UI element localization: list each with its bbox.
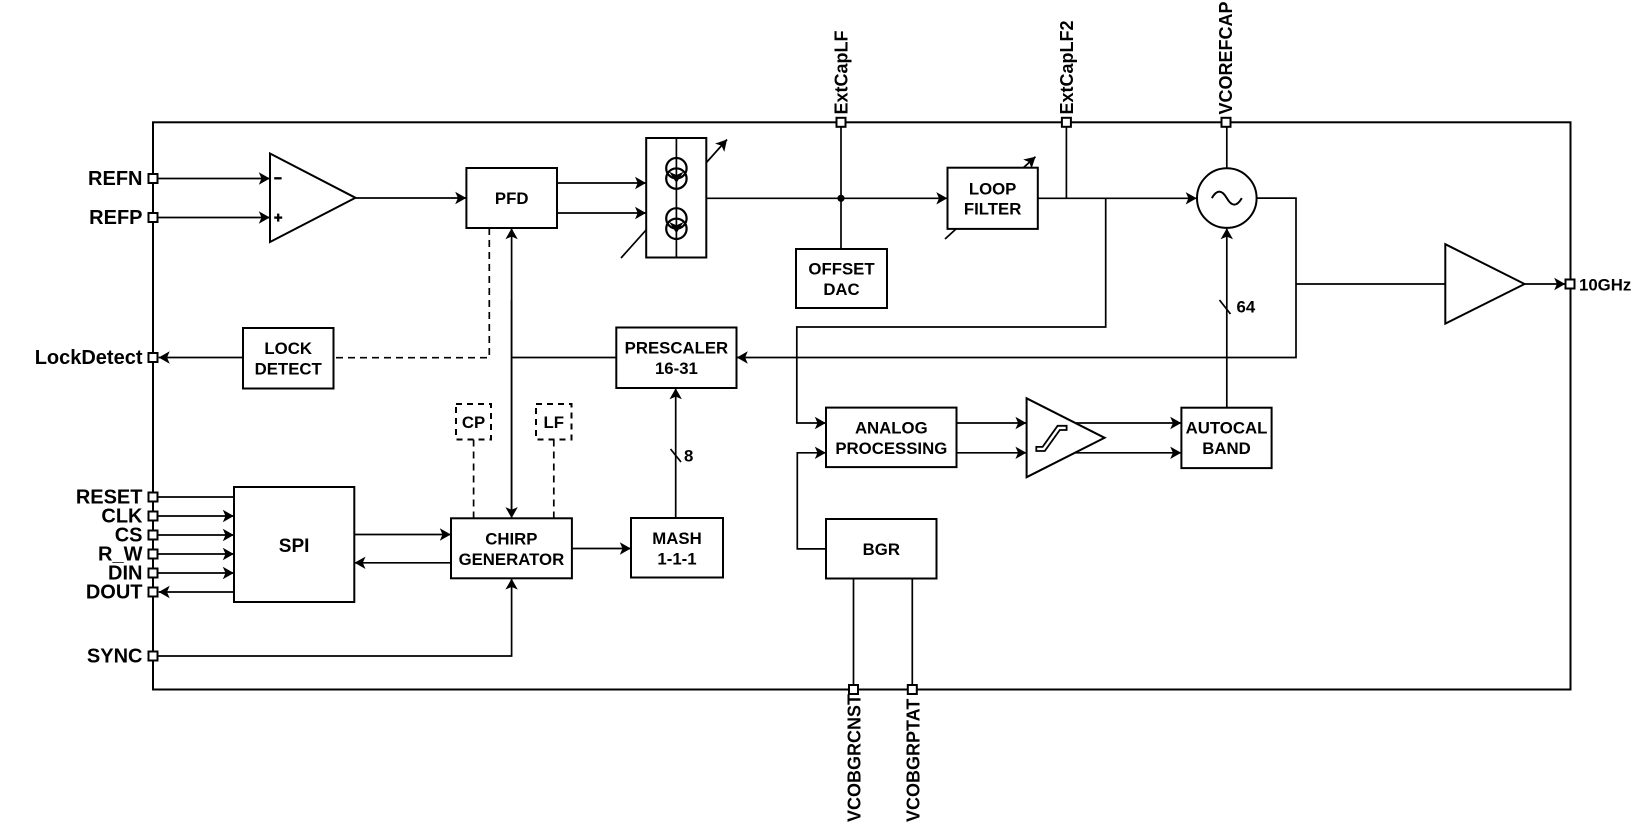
dashed box CP	[456, 404, 491, 440]
svg-text:64: 64	[1237, 298, 1256, 317]
svg-text:BAND: BAND	[1202, 439, 1250, 458]
block LOCK DETECT	[243, 328, 334, 389]
comparator with hysteresis	[1027, 398, 1105, 477]
wire MASH to prescaler	[675, 388, 677, 518]
pin VCOBGRCNST	[849, 685, 858, 694]
svg-text:REFP: REFP	[89, 207, 142, 229]
pin REFP	[149, 213, 158, 222]
wire ExtCapLF2 pin down to VCO control net	[1065, 127, 1067, 198]
wire SPI to DOUT	[159, 591, 234, 593]
svg-text:8: 8	[684, 447, 693, 466]
svg-text:DOUT: DOUT	[86, 582, 143, 604]
svg-text:REFN: REFN	[88, 168, 142, 190]
wire ExtCapLF pin down to offset DAC	[840, 127, 842, 249]
wire dashed LF box to chirp generator	[553, 440, 555, 519]
wire lock detect to LockDetect pin	[159, 357, 243, 359]
pin RESET	[149, 493, 158, 502]
wire CS to SPI	[159, 534, 234, 536]
wire chirp generator to SPI	[355, 562, 452, 564]
wire output buffer to 10GHz pin	[1525, 283, 1566, 285]
wire CLK to SPI	[159, 515, 234, 517]
svg-text:SPI: SPI	[279, 536, 310, 557]
svg-text:ExtCapLF: ExtCapLF	[832, 30, 852, 114]
wire charge pump to loop filter	[706, 197, 947, 199]
chip boundary	[153, 122, 1571, 689]
dashed box LF	[536, 404, 572, 440]
current source upper	[666, 158, 686, 189]
wire SYNC to chirp generator	[159, 579, 512, 656]
svg-text:CHIRP: CHIRP	[485, 530, 537, 549]
wire SPI to chirp generator	[354, 534, 451, 536]
bus slash 8	[671, 449, 682, 462]
svg-text:PRESCALER: PRESCALER	[625, 339, 729, 358]
block ANALOG PROCESSING	[826, 408, 957, 468]
wire dashed CP box to chirp generator	[473, 440, 475, 519]
svg-text:BGR: BGR	[863, 540, 900, 559]
pin LockDetect	[149, 353, 158, 362]
pin 10GHz	[1566, 280, 1575, 289]
svg-text:AUTOCAL: AUTOCAL	[1186, 419, 1268, 438]
wire BGR to analog processing	[797, 453, 826, 549]
wire arrow into chirp generator top	[511, 300, 513, 518]
wire REFP to input buffer	[159, 217, 270, 219]
svg-text:DETECT: DETECT	[255, 360, 323, 379]
wire VCOREFCAP pin down to VCO	[1226, 127, 1228, 168]
block CHIRP GENERATOR	[451, 518, 572, 578]
svg-text:PFD: PFD	[495, 189, 529, 208]
block AUTOCAL BAND	[1181, 408, 1271, 468]
pin DOUT	[149, 588, 158, 597]
svg-text:1-1-1: 1-1-1	[657, 549, 696, 568]
wire R_W to SPI	[159, 553, 234, 555]
wire comparator to autocal band input 1	[1075, 422, 1181, 424]
wire branch to output buffer	[1296, 283, 1445, 285]
wire dashed PFD to lock detect	[334, 228, 490, 358]
pin VCOREFCAP	[1222, 118, 1231, 127]
svg-text:GENERATOR: GENERATOR	[459, 550, 565, 569]
wire analog processing to comparator input 1	[957, 422, 1027, 424]
wire DIN to SPI	[159, 572, 234, 574]
svg-text:LockDetect: LockDetect	[35, 347, 143, 369]
pin ExtCapLF2	[1062, 118, 1071, 127]
svg-text:VCOBGRPTAT: VCOBGRPTAT	[903, 699, 923, 822]
wire PFD DN output to charge pump	[557, 212, 646, 214]
svg-text:LOCK: LOCK	[264, 339, 312, 358]
block PRESCALER 16-31	[616, 328, 736, 389]
block BGR	[826, 519, 937, 579]
svg-text:FILTER: FILTER	[964, 200, 1021, 219]
block MASH 1-1-1	[631, 518, 723, 578]
block charge pump	[646, 138, 706, 258]
svg-text:CP: CP	[462, 413, 485, 432]
wire autocal band up to VCO	[1226, 228, 1228, 407]
current source lower	[666, 208, 686, 239]
wire prescaler output to feedback node	[512, 357, 617, 359]
wire comparator to autocal band input 2	[1073, 452, 1181, 454]
pin VCOBGRPTAT	[908, 685, 917, 694]
svg-text:DAC: DAC	[823, 280, 859, 299]
label plus input	[274, 216, 282, 218]
svg-text:VCOREFCAP: VCOREFCAP	[1216, 1, 1236, 114]
pin REFN	[149, 174, 158, 183]
svg-text:LF: LF	[544, 413, 565, 432]
block LOOP FILTER	[948, 168, 1038, 229]
pin DIN	[149, 569, 158, 578]
wire REFN to input buffer	[159, 178, 270, 180]
pin SYNC	[149, 652, 158, 661]
variable arrow through charge pump	[621, 140, 727, 259]
wire analog processing to comparator input 2	[957, 452, 1027, 454]
svg-text:ANALOG: ANALOG	[855, 418, 928, 437]
block PFD	[466, 168, 557, 228]
pin R_W	[149, 550, 158, 559]
charge pump internal rail	[675, 138, 677, 258]
op-amp output buffer	[1445, 244, 1524, 323]
oscillator VCO	[1197, 168, 1257, 228]
pin ExtCapLF	[837, 118, 846, 127]
wire PFD feedback vertical chirp to PFD	[511, 228, 513, 516]
svg-text:SYNC: SYNC	[87, 646, 143, 668]
svg-text:VCOBGRCNST: VCOBGRCNST	[845, 694, 865, 822]
svg-text:PROCESSING: PROCESSING	[835, 439, 947, 458]
pin CS	[149, 531, 158, 540]
wire chirp generator to MASH	[572, 548, 631, 550]
svg-text:10GHz: 10GHz	[1579, 276, 1631, 295]
wire BGR to VCOBGRCNST pin	[853, 579, 855, 690]
wire RESET to SPI	[159, 496, 235, 498]
pin CLK	[149, 512, 158, 521]
wire loop filter tap down to analog processing	[797, 198, 1106, 423]
wire VCO output to feedback corner	[737, 198, 1296, 357]
svg-text:MASH: MASH	[652, 529, 701, 548]
op-amp input buffer	[270, 154, 356, 243]
label minus input	[274, 177, 281, 179]
variable arrow through loop filter	[945, 157, 1036, 239]
bus slash 64	[1220, 300, 1231, 314]
svg-text:OFFSET: OFFSET	[808, 260, 875, 279]
wire PFD UP output to charge pump	[557, 182, 646, 184]
wire BGR to VCOBGRPTAT pin	[911, 579, 913, 690]
svg-text:ExtCapLF2: ExtCapLF2	[1057, 20, 1077, 114]
block OFFSET DAC	[796, 249, 887, 308]
wire input buffer to PFD	[356, 197, 467, 199]
svg-text:16-31: 16-31	[655, 359, 698, 378]
node junction ExtCapLF net	[837, 195, 844, 202]
block SPI	[234, 487, 354, 602]
svg-text:LOOP: LOOP	[969, 179, 1017, 198]
wire loop filter to VCO	[1038, 197, 1197, 199]
